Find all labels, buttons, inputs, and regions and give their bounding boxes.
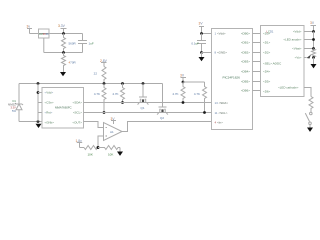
- node 1.8v supply label: [76, 139, 83, 143]
- node junction (122,102): [121, 101, 124, 104]
- wire ground rail y=121 left: [19, 121, 42, 123]
- svg-text:<Vdd>: <Vdd>: [45, 91, 54, 95]
- node 3v supply top-left label: [27, 25, 31, 29]
- svg-text:1uF: 1uF: [89, 42, 94, 46]
- svg-text:<D6>: <D6>: [263, 90, 270, 94]
- svg-text:<Rst>: <Rst>: [45, 111, 53, 115]
- wire SCL y=112: [84, 112, 212, 114]
- resistor R7 4.7K pullup SDA low side: [112, 84, 124, 103]
- resistor R11 10K: [98, 146, 120, 157]
- svg-text:<CSn>: <CSn>: [45, 101, 54, 105]
- svg-text:22: 22: [94, 72, 98, 76]
- svg-text:<LED anode>: <LED anode>: [283, 38, 301, 42]
- transistor Q2: [157, 107, 168, 120]
- potentiometer R12 contrast: [304, 49, 316, 59]
- node junction (313,31): [312, 30, 315, 33]
- wire Vdd into U3 pin 1: [202, 33, 212, 35]
- op-amp A1: [104, 123, 123, 141]
- LCD1 pin labels right: [278, 30, 302, 90]
- node junction (63,33): [62, 32, 65, 35]
- microcontroller U3 box: [212, 29, 253, 130]
- svg-text:<D5>: <D5>: [263, 80, 270, 84]
- wire 1.8v to R10: [80, 147, 85, 149]
- sensor U1 pin labels right: [72, 101, 82, 125]
- wire sensor pin bus x=37.5: [37, 84, 39, 122]
- svg-text:PIC24F1626: PIC24F1626: [223, 76, 241, 80]
- node junction (37.5,83): [37, 82, 40, 85]
- resistor R8 4.7K pullup SDA high side: [172, 82, 185, 103]
- wire LCD LED anode: [304, 39, 314, 41]
- wire Q2 gate from rail corner: [162, 84, 164, 108]
- svg-text:4.7K: 4.7K: [94, 92, 100, 96]
- svg-text:<D0>: <D0>: [263, 32, 270, 36]
- node 3V supply op-amp label: [111, 117, 116, 121]
- power symbol 2.8V: [101, 63, 107, 67]
- node junction (313,48): [312, 47, 315, 50]
- zener diode D1: [15, 100, 23, 111]
- node junction (103.5,83): [103, 82, 106, 85]
- svg-text:D1: D1: [12, 99, 16, 103]
- svg-text:4.7K: 4.7K: [112, 92, 118, 96]
- wire SDA y=102: [84, 102, 212, 104]
- node 3V supply pullups label: [180, 74, 185, 78]
- node junction (204,112): [203, 111, 206, 114]
- node junction (37.5,92): [37, 91, 40, 94]
- svg-text:13 <SDA>: 13 <SDA>: [215, 101, 229, 105]
- svg-text:<SEL> A0/DC: <SEL> A0/DC: [263, 62, 282, 66]
- svg-text:1 <Vdd>: 1 <Vdd>: [215, 32, 226, 36]
- svg-text:<Vdd>: <Vdd>: [293, 30, 302, 34]
- resistor R9 4.7K pullup SCL high side: [194, 82, 207, 113]
- U3 part name: [223, 76, 241, 80]
- wire sensor pin stubs: [38, 93, 42, 113]
- svg-text:<OUT>: <OUT>: [72, 121, 82, 125]
- resistor R13 backlight: [309, 97, 313, 113]
- wire LCD Vbat: [304, 48, 314, 50]
- zener D1 label block: [8, 99, 16, 113]
- U3 pin labels right: [241, 32, 250, 93]
- svg-text:<D4>: <D4>: [263, 70, 270, 74]
- svg-text:<DB3>: <DB3>: [241, 60, 250, 64]
- svg-text:4 <In>: 4 <In>: [215, 120, 224, 124]
- wire op-amp plus input from divider: [98, 136, 104, 148]
- capacitor C1 1uF: [78, 34, 94, 53]
- wire op-amp output to U3 pin 4: [122, 122, 212, 132]
- power symbol 3v top-left: [27, 29, 32, 34]
- wire zener branch left vertical: [18, 84, 20, 122]
- svg-text:<DB6>: <DB6>: [241, 89, 250, 93]
- resistor R1 560R: [62, 34, 77, 53]
- node junction (97.5,147): [97, 146, 100, 149]
- svg-text:0.1uF: 0.1uF: [191, 42, 199, 46]
- node junction (182.5,102): [182, 101, 185, 104]
- svg-text:MMA7660FC: MMA7660FC: [55, 106, 72, 110]
- ground below R11: [117, 148, 123, 156]
- node junction (122,83): [121, 82, 124, 85]
- svg-text:A1: A1: [110, 130, 114, 134]
- svg-text:470R: 470R: [69, 61, 77, 65]
- svg-text:<DB1>: <DB1>: [241, 41, 250, 45]
- svg-text:<DB4>: <DB4>: [241, 70, 250, 74]
- svg-text:3v: 3v: [27, 25, 31, 29]
- ground below R12: [311, 58, 317, 69]
- wire pullup top link: [183, 81, 205, 83]
- svg-text:<Vo>: <Vo>: [295, 56, 302, 60]
- wire U2 bottom pin: [43, 38, 45, 53]
- voltage reference U2 label: [39, 32, 49, 36]
- sensor U1 box: [42, 88, 84, 129]
- power symbol 3V pullups: [181, 78, 187, 83]
- power symbol 3.3V: [61, 29, 67, 34]
- wire top rail y=33 from power to C1: [30, 33, 83, 35]
- svg-text:<D2>: <D2>: [263, 51, 270, 55]
- wire sensor OUT to op-amp: [84, 122, 104, 128]
- svg-text:3.3V: 3.3V: [10, 106, 16, 110]
- LCD1 ref label: [267, 30, 274, 34]
- wire LCD LED cathode to R13: [304, 88, 311, 97]
- svg-text:8 <GND>: 8 <GND>: [215, 51, 228, 55]
- node junction (201,33): [200, 32, 203, 35]
- node junction (37.5,121): [37, 120, 40, 123]
- node 3V supply right rail label: [310, 21, 315, 25]
- svg-text:<DB2>: <DB2>: [241, 51, 250, 55]
- resistor R10 10K: [84, 146, 98, 157]
- wire bus U3 to LCD1 7 lines: [253, 34, 261, 91]
- node junction (103.5,112): [103, 111, 106, 114]
- capacitor C2 0.1uF: [191, 34, 206, 53]
- svg-text:<DB5>: <DB5>: [241, 80, 250, 84]
- sensor U1 pin labels left: [45, 91, 55, 125]
- node junction (63,52): [62, 51, 65, 54]
- svg-text:<D1>: <D1>: [263, 41, 270, 45]
- wire LCD Vdd: [304, 31, 314, 33]
- power symbol 3V right: [311, 26, 317, 32]
- node 3.3V supply label: [58, 24, 66, 28]
- resistor R6 4.7K pullup SCL low side: [94, 84, 106, 113]
- wire right rail vertical: [313, 32, 315, 51]
- ground below S1: [307, 125, 313, 132]
- LCD1 box: [261, 26, 305, 97]
- transistor Q1: [138, 84, 149, 110]
- svg-text:<DB0>: <DB0>: [241, 32, 250, 36]
- svg-text:<SCL>: <SCL>: [73, 111, 82, 115]
- svg-text:4.7K: 4.7K: [172, 92, 178, 96]
- voltage reference U2 box: [39, 29, 50, 38]
- switch S1: [305, 112, 312, 124]
- svg-text:10K: 10K: [108, 152, 113, 156]
- wire rail 2.8V y=83: [19, 83, 163, 85]
- wire Vss into U3 pin 8: [202, 52, 212, 54]
- wire feedback y=52: [44, 52, 83, 54]
- ground below R2: [60, 72, 66, 76]
- svg-text:Q1: Q1: [141, 106, 145, 110]
- LCD1 pin labels left: [263, 32, 282, 94]
- node junction (201,52): [200, 51, 203, 54]
- svg-text:11 <SCL>: 11 <SCL>: [215, 111, 228, 115]
- node junction (313,39): [312, 38, 315, 41]
- U3 pin labels left: [215, 32, 229, 125]
- sensor U1 part name: [55, 106, 72, 110]
- node junction (142.5,83) Q1 gate: [142, 82, 145, 85]
- svg-text:<Vbat>: <Vbat>: [292, 47, 302, 51]
- svg-text:LM4040: LM4040: [39, 32, 49, 36]
- resistor R2 470R: [62, 53, 77, 73]
- ground below C2: [199, 53, 205, 62]
- svg-text:<GNb>: <GNb>: [45, 121, 55, 125]
- power symbol 3V (201,26): [199, 27, 204, 34]
- power symbol 3V op-amp: [111, 121, 116, 125]
- svg-text:<SDA>: <SDA>: [73, 101, 83, 105]
- svg-text:4.7K: 4.7K: [194, 92, 200, 96]
- node 3V supply above C2: [199, 22, 204, 26]
- svg-text:3.3V: 3.3V: [58, 24, 66, 28]
- svg-text:<LED cathode>: <LED cathode>: [278, 86, 299, 90]
- node 2.8V supply label: [100, 59, 108, 63]
- node junction (182.5,82.5): [182, 81, 185, 84]
- svg-text:10K: 10K: [88, 152, 93, 156]
- svg-text:Q2: Q2: [160, 116, 164, 120]
- ground left sensor: [36, 124, 42, 128]
- svg-text:560R: 560R: [69, 42, 77, 46]
- resistor R5 22: [94, 67, 106, 84]
- power symbol 1.8v: [77, 143, 83, 148]
